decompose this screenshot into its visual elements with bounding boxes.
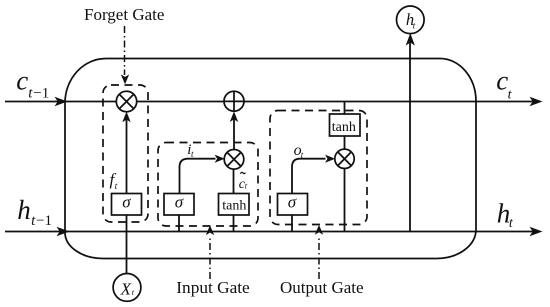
svg-text:t: t — [191, 149, 194, 159]
svg-text:h: h — [17, 195, 31, 225]
svg-text:σ: σ — [175, 193, 184, 212]
svg-text:t: t — [115, 182, 118, 192]
svg-text:Forget Gate: Forget Gate — [84, 5, 164, 24]
svg-text:σ: σ — [288, 193, 297, 212]
svg-text:tanh: tanh — [222, 199, 246, 214]
svg-text:t: t — [509, 216, 514, 231]
svg-text:c: c — [496, 65, 508, 95]
svg-text:−1: −1 — [33, 86, 49, 102]
svg-text:t: t — [508, 87, 513, 102]
svg-text:t: t — [245, 180, 248, 190]
svg-text:σ: σ — [122, 193, 131, 212]
svg-text:c: c — [16, 65, 28, 95]
svg-text:X: X — [120, 279, 132, 298]
svg-text:tanh: tanh — [332, 120, 356, 135]
svg-text:−1: −1 — [36, 213, 52, 229]
svg-text:Input Gate: Input Gate — [176, 278, 250, 297]
svg-text:Output Gate: Output Gate — [280, 278, 364, 297]
